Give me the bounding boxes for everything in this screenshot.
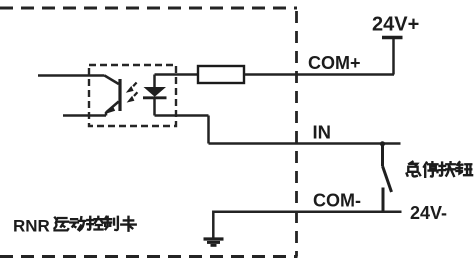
light arrows (optocoupler photon arrows): [126, 83, 138, 103]
wire: COM+ rail from resistor to 24V+ riser: [244, 73, 394, 76]
wire: IN riser: [207, 116, 210, 144]
wire: IN line: [209, 142, 401, 145]
wire: LED cathode run to IN riser: [155, 114, 209, 117]
optocoupler U1 dashed box: [89, 65, 176, 126]
svg-text:24V+: 24V+: [372, 14, 419, 36]
label 24V+: [372, 14, 419, 36]
card outline top edge (dashed): [0, 7, 297, 10]
transistor Q1 (phototransistor of optocoupler): [105, 76, 121, 116]
svg-text:COM+: COM+: [308, 53, 361, 73]
wire: LED anode to resistor: [155, 73, 199, 76]
ground: [204, 239, 224, 245]
card outline right edge (dashed): [295, 11, 298, 257]
wire: COM- rail: [213, 212, 401, 238]
24V+ terminal: [382, 38, 403, 75]
switch S1 (emergency stop button, NC contact open blade): [383, 144, 392, 212]
LED D1 (optocoupler emitter diode): [143, 75, 167, 116]
svg-text:COM-: COM-: [313, 191, 361, 211]
svg-text:24V-: 24V-: [410, 203, 447, 223]
resistor R1: [198, 66, 244, 83]
label 24V-: [410, 203, 447, 223]
label COM+: [308, 53, 361, 73]
wire: phototransistor collector lead (internal): [38, 74, 105, 77]
wire: phototransistor emitter lead (internal): [63, 114, 106, 117]
label: RNR motion control card (RNR运动控制卡): [13, 217, 136, 236]
svg-text:IN: IN: [313, 122, 332, 143]
card outline bottom edge (dashed): [0, 255, 298, 258]
label: emergency stop button (急停按钮): [407, 162, 472, 177]
label IN: [313, 122, 332, 143]
svg-text:RNR: RNR: [13, 217, 50, 236]
label COM-: [313, 191, 361, 211]
node: switch junction on IN line: [380, 141, 385, 146]
